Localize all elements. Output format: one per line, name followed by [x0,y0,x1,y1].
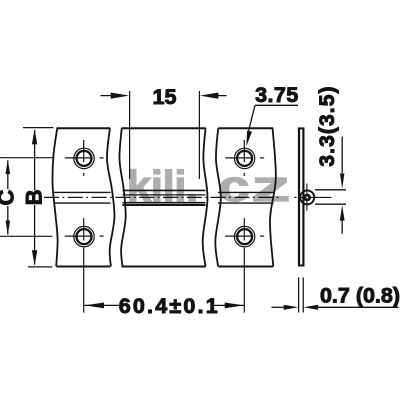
svg-text:15: 15 [153,85,177,109]
svg-text:3.3(3.5): 3.3(3.5) [316,85,339,166]
svg-text:3.75: 3.75 [255,83,298,107]
svg-text:60.4±0.1: 60.4±0.1 [119,294,220,318]
svg-text:0.7 (0.8): 0.7 (0.8) [320,283,400,307]
svg-text:kili.: kili. [127,162,199,211]
svg-text:B: B [21,189,46,205]
svg-text:C: C [0,190,18,206]
